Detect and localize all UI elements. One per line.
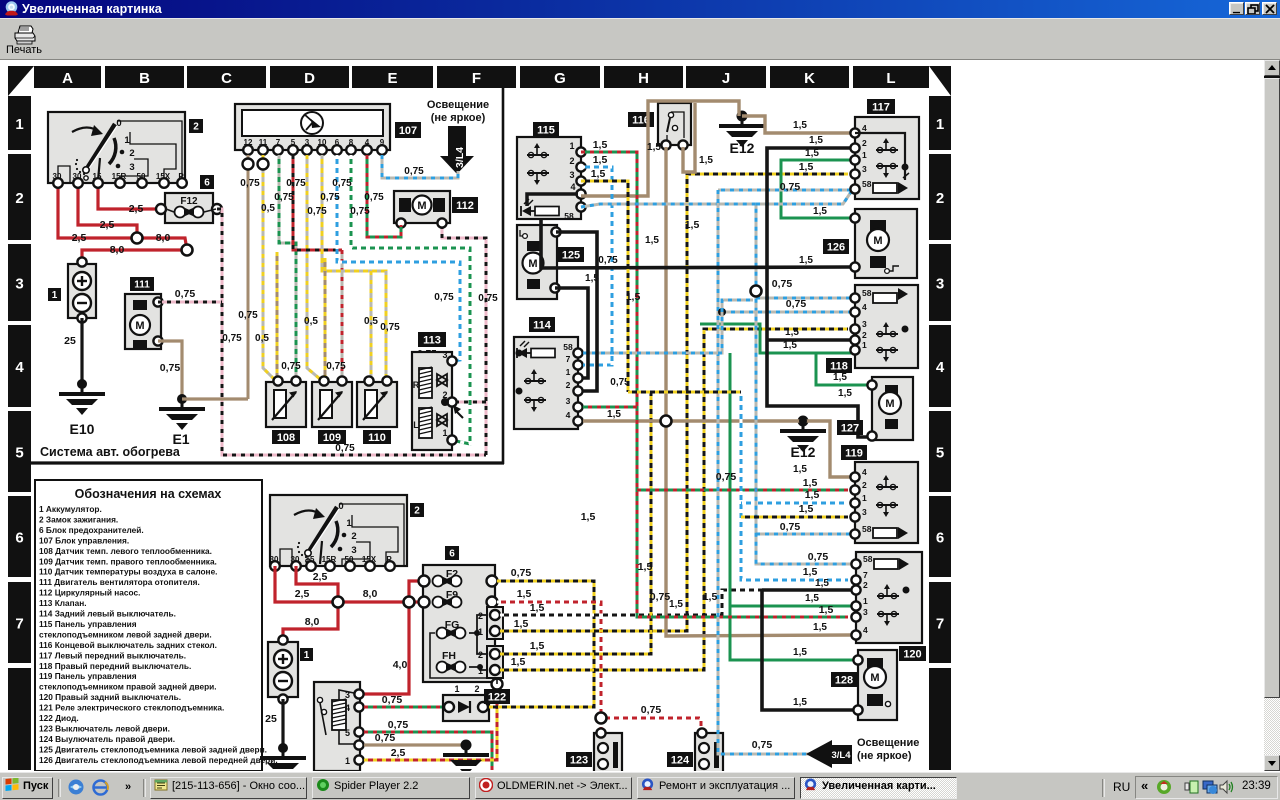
svg-text:2: 2 xyxy=(478,611,483,621)
svg-text:1,5: 1,5 xyxy=(809,135,823,146)
svg-text:M: M xyxy=(417,200,426,212)
svg-text:58: 58 xyxy=(563,342,573,352)
svg-text:1,5: 1,5 xyxy=(591,168,606,180)
svg-text:3: 3 xyxy=(936,276,944,293)
svg-text:L: L xyxy=(886,70,895,87)
svg-text:0,75: 0,75 xyxy=(274,192,294,203)
svg-text:1,5: 1,5 xyxy=(793,120,807,131)
svg-text:1,5: 1,5 xyxy=(819,604,834,616)
svg-text:1: 1 xyxy=(862,340,867,350)
svg-text:1,5: 1,5 xyxy=(645,235,659,246)
svg-text:6: 6 xyxy=(204,178,210,189)
svg-text:0,75: 0,75 xyxy=(326,361,346,372)
svg-text:A: A xyxy=(62,70,73,87)
svg-text:4: 4 xyxy=(345,703,350,713)
svg-text:E: E xyxy=(387,70,397,87)
svg-text:FH: FH xyxy=(442,650,456,662)
svg-text:стеклоподъемником левой задней: стеклоподъемником левой задней двери. xyxy=(39,629,212,639)
svg-text:7: 7 xyxy=(863,570,868,580)
svg-text:1,5: 1,5 xyxy=(685,219,700,231)
svg-text:116 Концевой выключатель задни: 116 Концевой выключатель задних стекол. xyxy=(39,640,217,650)
svg-text:C: C xyxy=(221,70,232,87)
svg-text:2,5: 2,5 xyxy=(72,232,87,244)
svg-text:2: 2 xyxy=(414,506,420,517)
svg-text:1: 1 xyxy=(304,650,310,661)
svg-text:5: 5 xyxy=(15,445,23,462)
svg-text:109 Датчик темп. правого тепло: 109 Датчик темп. правого теплообменника. xyxy=(39,556,217,566)
svg-text:128: 128 xyxy=(835,674,853,686)
svg-text:1,5: 1,5 xyxy=(805,593,819,604)
svg-text:58: 58 xyxy=(863,554,873,564)
svg-text:5: 5 xyxy=(345,728,350,738)
svg-text:2,5: 2,5 xyxy=(313,571,328,583)
svg-text:2: 2 xyxy=(442,390,447,400)
svg-text:Обозначения на схемах: Обозначения на схемах xyxy=(75,487,222,501)
svg-text:3/L4: 3/L4 xyxy=(831,750,851,761)
svg-text:2: 2 xyxy=(936,190,944,207)
svg-text:(не яркое): (не яркое) xyxy=(857,750,912,762)
svg-text:стеклоподъемником правой задне: стеклоподъемником правой задней двери. xyxy=(39,682,217,692)
svg-text:126 Двигатель стеклоподъемника: 126 Двигатель стеклоподъемника левой пер… xyxy=(39,755,278,765)
svg-text:3: 3 xyxy=(566,396,571,406)
svg-text:4: 4 xyxy=(566,410,571,420)
svg-text:0,5: 0,5 xyxy=(261,203,275,214)
svg-text:0,75: 0,75 xyxy=(332,178,352,189)
svg-text:107: 107 xyxy=(399,125,417,137)
svg-text:1,5: 1,5 xyxy=(581,511,596,523)
svg-text:1: 1 xyxy=(566,367,571,377)
svg-text:2: 2 xyxy=(569,156,574,166)
svg-text:0,75: 0,75 xyxy=(222,333,242,344)
svg-text:1,5: 1,5 xyxy=(793,647,807,658)
svg-text:1,5: 1,5 xyxy=(669,599,683,610)
svg-text:0,75: 0,75 xyxy=(380,322,400,333)
svg-text:8,0: 8,0 xyxy=(363,588,378,600)
svg-text:1,5: 1,5 xyxy=(607,409,621,420)
svg-text:58: 58 xyxy=(862,288,872,298)
svg-text:118: 118 xyxy=(830,360,848,372)
svg-text:0,75: 0,75 xyxy=(752,739,773,751)
svg-text:4: 4 xyxy=(570,182,575,192)
svg-text:E1: E1 xyxy=(172,431,189,447)
svg-text:1: 1 xyxy=(345,756,350,766)
svg-text:1,5: 1,5 xyxy=(638,561,653,573)
svg-text:0,75: 0,75 xyxy=(350,206,370,217)
svg-text:2,5: 2,5 xyxy=(295,588,310,600)
svg-text:109: 109 xyxy=(323,432,341,444)
svg-text:1: 1 xyxy=(442,428,447,438)
svg-text:124: 124 xyxy=(671,754,690,766)
svg-text:1: 1 xyxy=(936,116,944,133)
svg-text:1,5: 1,5 xyxy=(593,139,608,151)
svg-text:120 Правый задний выключатель.: 120 Правый задний выключатель. xyxy=(39,692,181,702)
svg-text:1,5: 1,5 xyxy=(793,464,807,475)
svg-text:2,5: 2,5 xyxy=(129,203,144,215)
svg-text:123: 123 xyxy=(570,754,588,766)
svg-text:8,0: 8,0 xyxy=(110,244,125,256)
svg-text:122 Диод.: 122 Диод. xyxy=(39,713,79,723)
svg-text:1: 1 xyxy=(863,596,868,606)
svg-text:E12: E12 xyxy=(730,140,755,156)
svg-text:123 Выключатель левой двери.: 123 Выключатель левой двери. xyxy=(39,723,170,733)
svg-text:0,5: 0,5 xyxy=(364,316,378,327)
svg-text:L: L xyxy=(413,420,419,430)
svg-text:0,5: 0,5 xyxy=(304,316,318,327)
svg-text:4: 4 xyxy=(862,467,867,477)
svg-text:0,75: 0,75 xyxy=(364,192,384,203)
svg-text:Освещение: Освещение xyxy=(427,99,489,111)
svg-text:1,5: 1,5 xyxy=(838,388,852,399)
svg-text:2 Замок зажигания.: 2 Замок зажигания. xyxy=(39,514,118,524)
svg-text:M: M xyxy=(528,258,537,270)
svg-text:3: 3 xyxy=(15,276,23,293)
svg-text:127: 127 xyxy=(841,422,859,434)
svg-text:1,5: 1,5 xyxy=(593,154,608,166)
svg-text:4: 4 xyxy=(862,123,867,133)
svg-text:2,5: 2,5 xyxy=(100,219,115,231)
svg-text:120: 120 xyxy=(903,648,921,660)
svg-text:1,5: 1,5 xyxy=(803,477,818,489)
svg-text:1,5: 1,5 xyxy=(799,503,814,515)
svg-text:107 Блок управления.: 107 Блок управления. xyxy=(39,535,129,545)
svg-text:6: 6 xyxy=(449,549,455,560)
svg-text:0,75: 0,75 xyxy=(335,443,355,454)
svg-text:1: 1 xyxy=(454,684,459,694)
svg-text:1,5: 1,5 xyxy=(514,618,529,630)
svg-text:0,75: 0,75 xyxy=(238,310,258,321)
svg-text:1,5: 1,5 xyxy=(805,489,820,501)
svg-text:3: 3 xyxy=(863,607,868,617)
svg-text:0,75: 0,75 xyxy=(772,278,793,290)
svg-text:2,5: 2,5 xyxy=(391,747,406,759)
svg-text:F12: F12 xyxy=(180,196,198,207)
svg-text:110: 110 xyxy=(368,432,386,444)
svg-text:111 Двигатель вентилятора отоп: 111 Двигатель вентилятора отопителя. xyxy=(39,577,200,587)
svg-text:3/L4: 3/L4 xyxy=(454,147,466,168)
svg-text:1: 1 xyxy=(862,493,867,503)
svg-text:7: 7 xyxy=(15,616,23,633)
svg-text:6 Блок предохранителей.: 6 Блок предохранителей. xyxy=(39,525,144,535)
svg-text:1,5: 1,5 xyxy=(511,656,526,668)
svg-text:124 Выулючатель правой двери.: 124 Выулючатель правой двери. xyxy=(39,734,175,744)
svg-text:117 Левый передний выключатель: 117 Левый передний выключатель. xyxy=(39,650,186,660)
svg-text:R: R xyxy=(413,380,420,390)
svg-text:3: 3 xyxy=(862,507,867,517)
svg-text:0,75: 0,75 xyxy=(240,178,260,189)
svg-text:1: 1 xyxy=(52,290,58,301)
svg-text:0,75: 0,75 xyxy=(388,719,409,731)
svg-text:2: 2 xyxy=(474,684,479,694)
svg-text:0,75: 0,75 xyxy=(786,298,807,310)
svg-text:(не яркое): (не яркое) xyxy=(431,112,486,124)
svg-text:B: B xyxy=(139,70,150,87)
svg-text:4: 4 xyxy=(15,359,24,376)
svg-text:122: 122 xyxy=(488,691,506,703)
svg-text:115 Панель управления: 115 Панель управления xyxy=(39,619,137,629)
svg-text:4: 4 xyxy=(862,302,867,312)
svg-text:1,5: 1,5 xyxy=(699,155,713,166)
svg-text:F: F xyxy=(472,70,481,87)
svg-text:0,75: 0,75 xyxy=(404,166,424,177)
svg-text:0,75: 0,75 xyxy=(511,567,532,579)
svg-text:58: 58 xyxy=(862,179,872,189)
svg-text:E12: E12 xyxy=(791,444,816,460)
svg-text:J: J xyxy=(722,70,730,87)
svg-text:2: 2 xyxy=(478,650,483,660)
svg-text:113 Клапан.: 113 Клапан. xyxy=(39,598,87,608)
svg-text:125 Двигатель стеклоподъемника: 125 Двигатель стеклоподъемника левой зад… xyxy=(39,744,267,754)
svg-text:112: 112 xyxy=(456,200,474,212)
svg-text:2: 2 xyxy=(862,138,867,148)
svg-text:0: 0 xyxy=(116,118,121,129)
svg-text:1: 1 xyxy=(15,116,23,133)
svg-text:0,75: 0,75 xyxy=(307,206,327,217)
svg-text:111: 111 xyxy=(134,280,150,291)
svg-text:115: 115 xyxy=(537,124,555,136)
svg-text:0,75: 0,75 xyxy=(434,292,454,303)
svg-text:1,5: 1,5 xyxy=(703,591,718,603)
svg-text:0,75: 0,75 xyxy=(650,591,671,603)
svg-text:0,75: 0,75 xyxy=(175,288,196,300)
svg-text:2: 2 xyxy=(862,330,867,340)
svg-text:112 Циркулярный насос.: 112 Циркулярный насос. xyxy=(39,588,140,598)
svg-text:0,75: 0,75 xyxy=(160,362,181,374)
svg-text:1,5: 1,5 xyxy=(803,566,818,578)
svg-text:0,5: 0,5 xyxy=(255,333,269,344)
svg-text:4,0: 4,0 xyxy=(393,659,408,671)
svg-text:1,5: 1,5 xyxy=(647,142,661,153)
svg-text:1,5: 1,5 xyxy=(517,588,532,600)
svg-text:8,0: 8,0 xyxy=(156,232,171,244)
svg-text:3: 3 xyxy=(569,170,574,180)
svg-text:1: 1 xyxy=(478,666,483,676)
svg-text:2: 2 xyxy=(351,531,356,542)
svg-text:25: 25 xyxy=(64,335,76,347)
svg-text:1,5: 1,5 xyxy=(813,622,827,633)
svg-text:121 Реле электрического стекло: 121 Реле электрического стеклоподъемника… xyxy=(39,703,224,713)
svg-text:1,5: 1,5 xyxy=(530,602,545,614)
svg-text:114: 114 xyxy=(533,319,552,331)
svg-text:G: G xyxy=(554,70,566,87)
svg-text:125: 125 xyxy=(562,249,580,261)
svg-text:1,5: 1,5 xyxy=(813,206,827,217)
svg-text:117: 117 xyxy=(872,101,890,113)
svg-text:3: 3 xyxy=(862,319,867,329)
svg-text:3: 3 xyxy=(442,350,447,360)
svg-text:113: 113 xyxy=(423,334,441,346)
svg-text:2: 2 xyxy=(129,148,134,159)
svg-text:7: 7 xyxy=(936,616,944,633)
svg-text:Система авт. обогрева: Система авт. обогрева xyxy=(40,445,181,459)
svg-text:119: 119 xyxy=(845,447,863,459)
svg-text:4: 4 xyxy=(936,359,945,376)
svg-text:0,75: 0,75 xyxy=(780,181,801,193)
svg-text:119 Панель управления: 119 Панель управления xyxy=(39,671,137,681)
svg-text:0,75: 0,75 xyxy=(320,192,340,203)
svg-text:0,75: 0,75 xyxy=(641,704,662,716)
svg-text:58: 58 xyxy=(564,211,574,221)
svg-text:1,5: 1,5 xyxy=(815,578,829,589)
svg-text:0,75: 0,75 xyxy=(780,521,801,533)
svg-text:0,75: 0,75 xyxy=(286,178,306,189)
svg-text:58: 58 xyxy=(862,524,872,534)
svg-text:5: 5 xyxy=(936,445,944,462)
svg-text:2: 2 xyxy=(566,380,571,390)
svg-text:1 Аккумулятор.: 1 Аккумулятор. xyxy=(39,504,102,514)
svg-text:25: 25 xyxy=(265,713,277,725)
svg-text:8,0: 8,0 xyxy=(305,616,320,628)
svg-text:M: M xyxy=(135,320,144,332)
svg-text:0,75: 0,75 xyxy=(375,732,396,744)
svg-text:0,75: 0,75 xyxy=(808,551,829,563)
svg-text:0,75: 0,75 xyxy=(478,293,498,304)
svg-text:M: M xyxy=(870,672,879,684)
svg-text:0: 0 xyxy=(338,501,343,512)
svg-text:1: 1 xyxy=(862,150,867,160)
svg-text:E10: E10 xyxy=(70,421,95,437)
svg-text:1: 1 xyxy=(569,141,574,151)
svg-text:1,5: 1,5 xyxy=(626,291,641,303)
svg-text:H: H xyxy=(638,70,649,87)
svg-text:0,75: 0,75 xyxy=(598,255,618,266)
svg-text:1,5: 1,5 xyxy=(793,697,807,708)
svg-text:1,5: 1,5 xyxy=(833,372,847,383)
svg-text:6: 6 xyxy=(936,530,944,547)
svg-text:108: 108 xyxy=(277,432,295,444)
svg-text:1,5: 1,5 xyxy=(799,255,813,266)
svg-text:110 Датчик температуры воздуха: 110 Датчик температуры воздуха в салоне. xyxy=(39,567,218,577)
svg-text:7: 7 xyxy=(566,354,571,364)
svg-text:126: 126 xyxy=(827,241,845,253)
svg-text:0,75: 0,75 xyxy=(716,471,737,483)
svg-text:K: K xyxy=(804,70,815,87)
svg-text:M: M xyxy=(873,235,882,247)
svg-text:118 Правый передний выключател: 118 Правый передний выключатель. xyxy=(39,661,191,671)
svg-text:1,5: 1,5 xyxy=(785,327,799,338)
svg-text:1,5: 1,5 xyxy=(530,640,545,652)
svg-text:0,75: 0,75 xyxy=(281,361,301,372)
svg-text:Освещение: Освещение xyxy=(857,737,919,749)
svg-text:3: 3 xyxy=(345,690,350,700)
svg-text:2: 2 xyxy=(15,190,23,207)
svg-text:M: M xyxy=(885,398,894,410)
svg-text:1,5: 1,5 xyxy=(799,161,814,173)
svg-text:2: 2 xyxy=(862,480,867,490)
svg-text:3: 3 xyxy=(129,162,134,173)
svg-text:3: 3 xyxy=(862,164,867,174)
svg-text:4: 4 xyxy=(863,625,868,635)
svg-text:114 Задний левый выключатель.: 114 Задний левый выключатель. xyxy=(39,609,176,619)
svg-text:1: 1 xyxy=(478,627,483,637)
svg-text:6: 6 xyxy=(15,530,23,547)
svg-text:D: D xyxy=(304,70,315,87)
svg-text:2: 2 xyxy=(193,122,199,133)
svg-text:2: 2 xyxy=(863,580,868,590)
svg-text:108 Датчик темп. левого теплоо: 108 Датчик темп. левого теплообменника. xyxy=(39,546,212,556)
svg-text:0,75: 0,75 xyxy=(382,694,403,706)
